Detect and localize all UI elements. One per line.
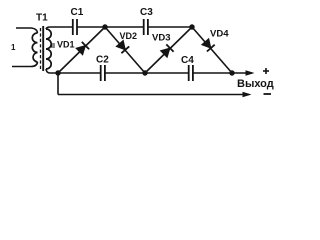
node A junction	[55, 70, 60, 75]
diode VD3	[145, 27, 192, 73]
output arrow minus	[243, 92, 252, 98]
wire primary top lead	[16, 28, 38, 33]
transformer core dashed line	[40, 28, 42, 70]
wire primary bottom lead	[12, 62, 38, 67]
wire secondary top lead to top rail	[46, 27, 72, 29]
node 1 junction	[102, 24, 107, 29]
svg-text:C2: C2	[96, 55, 109, 66]
wire return down from node A	[57, 73, 59, 95]
wire bottom rail A to C2	[58, 72, 100, 74]
transformer core solid line	[42, 26, 44, 71]
minus sign	[264, 93, 272, 95]
transformer T1 primary winding	[32, 33, 37, 62]
diode VD2	[105, 27, 145, 73]
svg-text:C3: C3	[140, 7, 153, 18]
capacitor C2	[101, 65, 105, 81]
svg-text:VD1: VD1	[57, 40, 75, 50]
capacitor C1	[73, 19, 77, 35]
svg-text:VD2: VD2	[120, 31, 138, 41]
svg-text:T1: T1	[36, 13, 48, 24]
wire return bottom	[58, 94, 249, 96]
node B junction	[142, 70, 147, 75]
svg-text:1: 1	[11, 43, 16, 52]
diode VD1	[58, 27, 105, 73]
svg-text:VD3: VD3	[152, 33, 170, 44]
capacitor C3	[144, 19, 148, 35]
svg-text:VD4: VD4	[210, 29, 229, 40]
svg-text:Выход: Выход	[237, 78, 274, 90]
node 2 junction	[189, 24, 194, 29]
output arrow plus	[246, 70, 255, 76]
wire bottom rail C4 to output arrow	[193, 72, 252, 74]
wire secondary bottom lead to node A	[46, 69, 58, 73]
svg-text:II: II	[51, 43, 55, 50]
plus sign	[263, 68, 269, 74]
wire bottom rail C2 to C4	[105, 72, 188, 74]
wire top rail C3 to node 2	[148, 26, 192, 28]
svg-text:C4: C4	[181, 55, 194, 66]
diode VD4	[192, 27, 232, 73]
capacitor C4	[189, 65, 193, 81]
transformer T1 secondary winding	[46, 29, 51, 69]
svg-text:C1: C1	[71, 7, 84, 18]
wire top rail C1 to C3	[77, 26, 143, 28]
node C junction	[229, 70, 234, 75]
